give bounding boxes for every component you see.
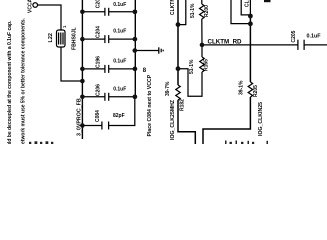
svg-text:L22: L22 <box>48 33 54 42</box>
svg-text:VCCA: VCCA <box>28 0 34 13</box>
svg-text:network must use 5% or better: network must use 5% or better tolerance … <box>21 17 27 144</box>
svg-text:CL: CL <box>245 0 251 7</box>
svg-text:0.1uF: 0.1uF <box>113 59 126 65</box>
svg-text:39-1%: 39-1% <box>239 80 245 95</box>
svg-text:3_0VPROC_FB: 3_0VPROC_FB <box>77 98 83 136</box>
svg-text:C206: C206 <box>96 84 102 96</box>
svg-text:IOG_CLK25MHZ: IOG_CLK25MHZ <box>170 99 176 140</box>
svg-text:39-7%: 39-7% <box>165 81 171 96</box>
svg-text:1: 1 <box>62 25 67 28</box>
svg-text:Place C084 next to VCCP: Place C084 next to VCCP <box>147 74 153 136</box>
svg-text:R205: R205 <box>253 85 259 97</box>
svg-text:0.1uF: 0.1uF <box>113 29 126 35</box>
svg-text:0.1uF: 0.1uF <box>113 86 126 92</box>
svg-text:R165: R165 <box>204 59 210 71</box>
svg-text:C196: C196 <box>96 56 102 68</box>
svg-text:should be decoupled at the com: should be decoupled at the component wit… <box>7 20 13 144</box>
svg-text:82pF: 82pF <box>113 113 125 119</box>
svg-text:CLKTM: CLKTM <box>170 0 176 15</box>
svg-text:CLKTM_RD: CLKTM_RD <box>208 39 243 46</box>
svg-text:0.1uF: 0.1uF <box>113 2 126 8</box>
svg-text:R182: R182 <box>180 99 186 111</box>
svg-text:IOG_CLKIN25: IOG_CLKIN25 <box>258 102 264 136</box>
svg-text:8: 8 <box>143 68 147 74</box>
svg-text:C204: C204 <box>96 26 102 38</box>
svg-text:51-1%: 51-1% <box>189 59 195 74</box>
svg-text:C084: C084 <box>95 110 101 122</box>
svg-text:C205: C205 <box>291 30 297 42</box>
svg-text:FBHS0JL: FBHS0JL <box>72 27 78 50</box>
svg-text:C202: C202 <box>96 0 102 8</box>
svg-text:R200: R200 <box>204 5 210 17</box>
svg-text:51-1%: 51-1% <box>190 3 196 18</box>
svg-text:0.1uF: 0.1uF <box>307 34 322 40</box>
